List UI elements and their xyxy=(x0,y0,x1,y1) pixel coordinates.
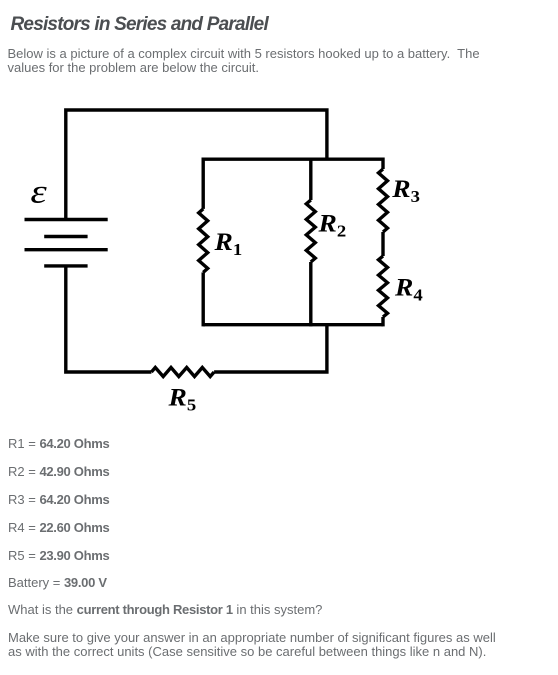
question xyxy=(8,603,322,617)
svg-text:R1: R1 xyxy=(213,228,242,259)
wire: left vertical + top wire + right outer vertical down to box top xyxy=(66,110,327,220)
value list xyxy=(8,437,109,451)
wire: left vertical below battery + bottom wire left segment xyxy=(66,266,152,372)
wire: middle branch lower lead xyxy=(309,262,312,326)
wire: right branch upper lead xyxy=(381,158,384,170)
svg-text:R4: R4 xyxy=(394,274,423,305)
battery E: short plate xyxy=(44,264,87,267)
wire: left branch upper lead xyxy=(201,158,204,209)
wire: right branch middle lead between R3 and R4 xyxy=(381,232,384,256)
svg-text:R2: R2 xyxy=(317,209,346,240)
intro paragraph xyxy=(8,47,480,75)
battery E: long plate xyxy=(25,218,108,221)
wire: middle branch upper lead xyxy=(309,158,312,201)
wire: left branch lower lead xyxy=(201,272,204,326)
svg-text:R3: R3 xyxy=(391,175,420,206)
svg-text:R5: R5 xyxy=(167,384,196,415)
closing note xyxy=(8,631,496,659)
wire: parallel box top rail xyxy=(203,157,383,160)
title xyxy=(11,13,268,37)
svg-text:ε: ε xyxy=(30,173,46,211)
wire: parallel box bottom rail xyxy=(203,323,383,326)
resistor R1 xyxy=(199,209,208,273)
resistor R3 xyxy=(379,169,388,232)
resistor R2 xyxy=(306,200,315,262)
resistor R5 xyxy=(151,368,214,377)
resistor R4 xyxy=(379,256,388,317)
battery E: short plate xyxy=(44,235,87,238)
wire: bottom wire right segment + right outer vertical up to box bottom xyxy=(214,325,327,372)
battery E: long plate xyxy=(25,248,108,251)
wire: right branch lower lead xyxy=(381,317,384,326)
